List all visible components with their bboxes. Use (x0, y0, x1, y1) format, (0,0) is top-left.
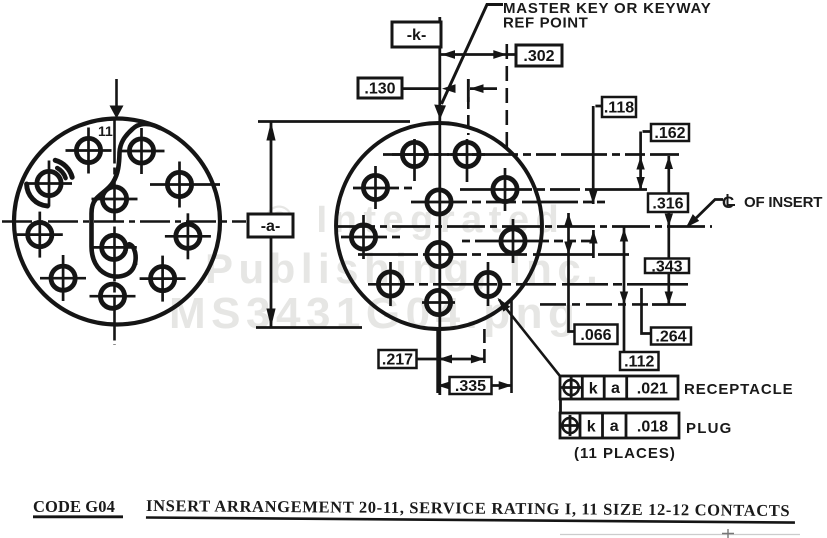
dimension box .343 (645, 258, 689, 275)
right horizontal centerline (337, 225, 712, 228)
left horizontal centerline (2, 220, 246, 223)
row line C2 (358, 253, 629, 256)
contact hole T1 right view (392, 139, 449, 181)
master key S-spline left view (92, 124, 161, 277)
dimension a extension line top (258, 120, 410, 123)
svg-text:k: k (587, 419, 596, 436)
dimension box .302 (516, 45, 562, 66)
row line M1 (341, 236, 404, 239)
dimension box .335 (450, 377, 492, 395)
dimension box -k- (392, 22, 441, 47)
dimension box .130 (358, 78, 402, 98)
dimension box .264 (651, 328, 691, 346)
contact hole L1 left view (26, 161, 72, 207)
dimension box .066 (575, 325, 618, 345)
contact hole R1 left view (150, 162, 220, 208)
svg-text:CODE G04: CODE G04 (33, 497, 115, 516)
dimension line .302 (441, 50, 516, 59)
extension line below circle B2 column dashed (483, 329, 486, 369)
left vertical centerline (113, 120, 116, 346)
label master key or keyway (503, 0, 712, 17)
left datum arrow at top (110, 79, 124, 119)
dimension box .112 (620, 352, 659, 371)
svg-text:-k-: -k- (407, 27, 427, 44)
leader and column .162 (636, 132, 651, 191)
svg-text:PLUG: PLUG (686, 420, 732, 437)
tick right of C2 (135, 255, 138, 266)
svg-text:.021: .021 (637, 381, 668, 398)
svg-text:a: a (611, 380, 620, 397)
svg-text:.335: .335 (455, 378, 486, 395)
left insert face outline circle (14, 119, 220, 325)
feature control frame plug (560, 413, 680, 438)
svg-text:.162: .162 (654, 125, 685, 142)
dimension a extension line bottom (256, 326, 362, 329)
extension bar and outside arrow .130 (468, 79, 497, 102)
right insert face outline circle (336, 123, 542, 329)
contact hole M1 left view (17, 212, 63, 258)
row line L1 (353, 187, 413, 190)
row line C1 (411, 201, 605, 204)
watermark line 1 (265, 199, 565, 241)
row line M2 (462, 240, 592, 243)
contact hole C1 left view (92, 187, 138, 211)
contact hole L1 right view (363, 166, 387, 209)
contact hole B3 left view (90, 284, 136, 308)
contact hole C1 right view (427, 190, 451, 214)
row line bottom contacts (368, 283, 688, 286)
dimension box .118 (602, 97, 636, 117)
contact hole T2 left view (119, 128, 165, 174)
feature control frame receptacle (560, 376, 678, 399)
svg-text:OF INSERT: OF INSERT (744, 194, 822, 211)
contact hole B1 right view (378, 262, 402, 306)
right vertical center column / datum k line (438, 17, 441, 395)
dimension box .217 (379, 350, 417, 369)
svg-text:.112: .112 (624, 354, 654, 371)
contact hole M2 right view (501, 219, 525, 263)
contact hole B2 right view (476, 262, 500, 306)
contact hole C2 left view (91, 235, 137, 259)
svg-text:.217: .217 (382, 352, 413, 369)
dimension a vertical line with arrows (266, 122, 275, 328)
keyway arc lower-left of L1 (27, 184, 48, 206)
contact hole B2 left view (140, 256, 186, 302)
label receptacle (684, 381, 794, 398)
svg-text:.264: .264 (655, 329, 686, 346)
label C of insert (722, 193, 822, 212)
contact hole M1 right view (351, 215, 375, 259)
svg-text:.316: .316 (652, 195, 683, 212)
watermark line 3 (169, 289, 580, 338)
dimension box -a- (248, 214, 293, 237)
extension line R1 column dashed above circle (505, 44, 508, 148)
leader C of insert (686, 200, 723, 228)
leader .264 (642, 288, 652, 334)
svg-text:RECEPTACLE: RECEPTACLE (684, 381, 794, 398)
svg-text:.066: .066 (580, 327, 611, 344)
svg-text:a: a (610, 418, 619, 435)
contact hole C2 right view (427, 242, 451, 266)
watermark line 2 (205, 245, 603, 292)
svg-text:11: 11 (98, 123, 113, 139)
leader and column .118 (589, 106, 602, 204)
svg-text:-a-: -a- (261, 218, 281, 235)
svg-text:.018: .018 (637, 419, 668, 436)
faint bottom rule (560, 529, 800, 538)
svg-text:REF POINT: REF POINT (503, 15, 588, 32)
keyway arc inner upper-right of L1 (57, 168, 65, 178)
contact hole R1 right view (493, 168, 517, 211)
svg-text:© Integrated: © Integrated (265, 199, 565, 241)
short column below centerline at 593 (589, 230, 597, 258)
dimension line .335 left part (437, 381, 451, 390)
contact hole M2 left view (165, 213, 211, 259)
dimension box .316 (648, 194, 688, 213)
svg-text:(11 PLACES): (11 PLACES) (574, 445, 676, 462)
caption code G04 (33, 497, 123, 517)
dimension box .162 (651, 124, 689, 142)
label 11 places (574, 445, 676, 462)
column .112 with arrows (620, 228, 628, 353)
contact hole T2 right view (451, 139, 486, 182)
column .316 and .343 with arrows (652, 156, 686, 305)
extension line below circle M2 column (510, 300, 513, 393)
row line R1 (460, 188, 647, 191)
contact hole B1 left view (40, 255, 86, 301)
svg-text:.343: .343 (651, 258, 682, 275)
extension line below circle center column (436, 328, 439, 393)
dimension line .335 right part (492, 381, 513, 390)
label ref point (503, 15, 588, 32)
svg-text:k: k (589, 381, 598, 398)
row line B3 (422, 301, 455, 304)
contact hole T1 left view (66, 128, 112, 174)
keyway arc outer upper-right of L1 (55, 160, 72, 177)
extension line T2 column dashed above circle (467, 79, 470, 135)
contact hole B3 right view (426, 290, 450, 314)
svg-text:.130: .130 (364, 81, 395, 98)
row line top contacts (383, 153, 679, 156)
dimension line .130 with arrow at datum (402, 84, 456, 93)
svg-text:.118: .118 (604, 100, 634, 117)
label plug (686, 420, 732, 437)
label 11 at top (98, 123, 113, 139)
column .066 with arrows and elbow (564, 213, 574, 332)
row line B3 dashes right (540, 303, 648, 306)
leader 11 places callout (498, 298, 561, 413)
svg-text:.302: .302 (523, 48, 554, 65)
leader master key (434, 5, 503, 120)
dimension line .217 (417, 355, 485, 364)
svg-text:MS3431G04.png: MS3431G04.png (169, 289, 580, 338)
caption insert arrangement (146, 496, 795, 523)
